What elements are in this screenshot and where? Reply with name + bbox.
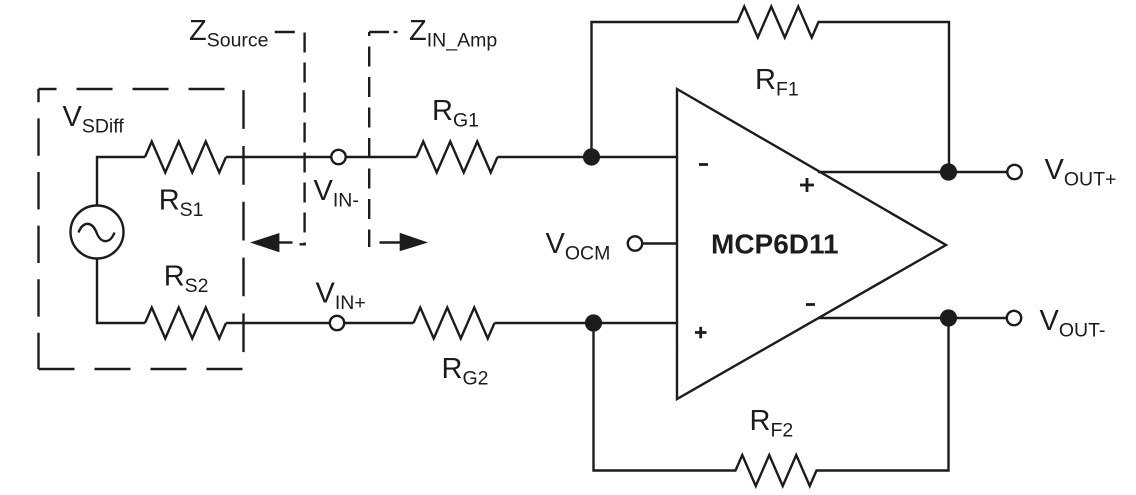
op-amp minus input mark — [699, 163, 708, 166]
wire R_G2 to op-amp non-inverting input — [495, 322, 678, 324]
wire V_IN- to R_G1 — [346, 156, 417, 158]
resistor R_G1 zigzag — [417, 142, 498, 173]
dashed measurement line Z_Source vertical — [303, 33, 305, 245]
AC source V_SDiff circle — [71, 206, 124, 259]
svg-text:VOUT+: VOUT+ — [1045, 154, 1117, 191]
svg-text:VOUT-: VOUT- — [1040, 305, 1106, 342]
terminal V_OUT+ open circle — [1007, 165, 1021, 179]
wire R_G1 to op-amp inverting input — [498, 156, 678, 158]
feedback loop R_F2 wire with zigzag — [594, 318, 949, 486]
op-amp U1 triangle MCP6D11 — [677, 89, 946, 399]
dashed measurement line Z_Source horizontal dash — [275, 31, 295, 33]
wire V_IN+ to R_G2 — [345, 322, 414, 324]
dashed measurement line Z_IN_Amp corner dash — [369, 31, 389, 33]
svg-text:RG1: RG1 — [432, 95, 479, 132]
wire source bottom vertical — [97, 259, 145, 324]
svg-text:RS1: RS1 — [159, 184, 204, 221]
arrow right head — [400, 233, 428, 252]
source box dashed bottom edge — [39, 368, 244, 370]
junction dot at R_G1 / R_F1 node — [583, 148, 600, 165]
svg-text:ZIN_Amp: ZIN_Amp — [409, 15, 497, 52]
wire source top vertical — [97, 157, 145, 206]
source box dashed (Z_Source enclosure) top edge — [39, 88, 244, 90]
arrow right (looking into amp) tail — [380, 241, 402, 243]
resistor R_S2 zigzag — [145, 308, 226, 339]
wire V_OCM to op-amp — [643, 242, 678, 244]
AC source sine wave — [79, 224, 115, 241]
source box dashed left edge — [37, 89, 39, 369]
dashed measurement line Z_IN_Amp vertical — [368, 32, 370, 247]
op-amp plus input mark — [695, 331, 707, 334]
resistor R_G2 zigzag — [414, 308, 495, 339]
svg-text:RG2: RG2 — [442, 353, 489, 390]
terminal V_IN+ open circle — [330, 316, 344, 330]
svg-text:RS2: RS2 — [164, 260, 209, 297]
svg-text:RF2: RF2 — [750, 405, 794, 442]
junction dot at V_OUT+ node — [940, 163, 957, 180]
dashed measurement line Z_Source bottom hook — [300, 243, 306, 245]
svg-text:MCP6D11: MCP6D11 — [711, 229, 839, 260]
op-amp minus output mark — [806, 303, 815, 306]
svg-text:VIN-: VIN- — [314, 175, 359, 212]
arrow left head — [250, 233, 279, 252]
source box dashed right edge — [242, 89, 244, 369]
wire R_S1 to V_IN- terminal — [226, 156, 331, 158]
wire op-amp output+ to V_OUT+ terminal — [818, 171, 1007, 173]
junction dot at V_OUT- node — [940, 309, 957, 326]
svg-text:VOCM: VOCM — [546, 228, 611, 265]
arrow left (looking into source) tail — [279, 241, 293, 243]
terminal V_OCM open circle — [628, 236, 642, 250]
op-amp plus output mark — [800, 184, 814, 187]
dashed measurement line Z_IN_Amp small dash — [394, 31, 398, 33]
junction dot at R_G2 / R_F2 node — [585, 314, 602, 331]
wire R_S2 to V_IN+ terminal — [226, 322, 330, 324]
svg-text:VIN+: VIN+ — [316, 278, 366, 315]
wire op-amp output- to V_OUT- terminal — [818, 317, 1007, 319]
terminal V_IN- open circle — [331, 150, 345, 164]
resistor R_S1 zigzag — [145, 142, 226, 173]
svg-text:RF1: RF1 — [755, 64, 799, 101]
svg-text:ZSource: ZSource — [189, 15, 269, 52]
terminal V_OUT- open circle — [1007, 311, 1021, 325]
svg-text:VSDiff: VSDiff — [63, 101, 125, 138]
feedback loop R_F1 wire with zigzag — [592, 7, 950, 173]
